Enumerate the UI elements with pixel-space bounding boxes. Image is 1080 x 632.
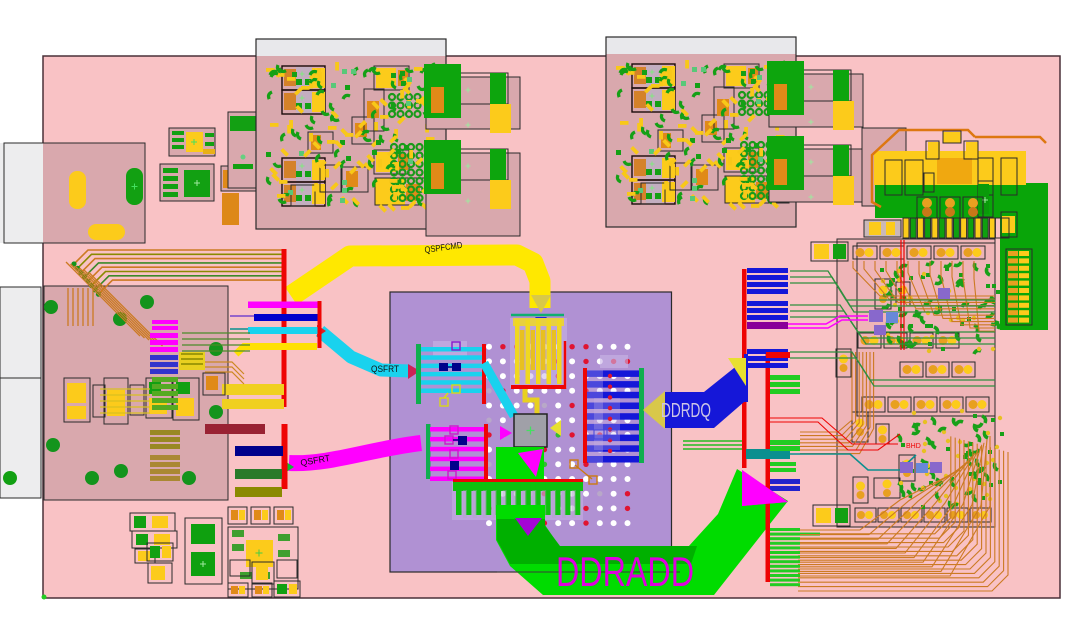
connector pad column CN5 — [1006, 249, 1032, 325]
connector module P4 — [767, 136, 863, 205]
node column N2 (red) — [282, 424, 288, 489]
orange circle pads row — [917, 197, 937, 218]
orange fanout traces (top) — [853, 261, 995, 331]
teal net trace — [790, 454, 916, 470]
BGA bottom pin comb — [452, 479, 583, 520]
J3 upper stub rows — [152, 320, 178, 330]
orange keepout outline — [872, 130, 975, 207]
J1 pad yellow — [88, 224, 125, 240]
red net traces — [770, 240, 921, 450]
connector J1 (left edge, top) — [0, 143, 145, 243]
connector module P3 — [767, 61, 863, 130]
svg-text:DDRDQ: DDRDQ — [661, 400, 711, 422]
DDRADD copper entry — [496, 447, 544, 480]
capacitor C1 — [222, 193, 239, 225]
outline boxes — [885, 160, 902, 195]
DDRADD arrow (magenta) — [742, 470, 788, 506]
BGA magenta receiver group — [426, 424, 488, 481]
BGA cyan receiver group — [416, 341, 486, 406]
QSFRT bus (magenta) — [283, 443, 421, 474]
component U5 — [228, 112, 261, 188]
J3 internal traces — [68, 288, 250, 413]
origin marker — [42, 595, 47, 600]
component U2 — [169, 128, 215, 156]
core chip X1 — [514, 389, 547, 447]
yellow power plane — [874, 151, 1026, 185]
svg-text:QSFRT: QSFRT — [371, 364, 399, 374]
copper squiggle texture B — [897, 409, 1004, 509]
DDRADD arrow overlay — [742, 470, 788, 506]
lavender components right — [900, 288, 950, 473]
DDR memory cluster U8 — [606, 37, 796, 227]
J3 component cluster — [64, 373, 225, 424]
orange fanout traces (bottom nest) — [798, 436, 1008, 591]
node column N4 (red) — [766, 352, 771, 582]
bottom components group — [130, 507, 300, 597]
pad row R1 (top) — [811, 242, 985, 261]
QSPFCMD entry arrow — [511, 295, 564, 324]
node column N2b (red) — [318, 301, 322, 348]
BGA region U9 — [390, 292, 672, 572]
BGA yellow pin field — [510, 318, 567, 389]
connector J2 (left edge, bottom shell) — [0, 287, 41, 498]
arrow into core (magenta) — [500, 426, 512, 440]
power regulator area VR1 — [864, 130, 1048, 330]
DDR memory cluster U7 — [256, 39, 446, 229]
BGA DDR driver group — [583, 355, 644, 463]
orange fanout traces (left nest) — [800, 352, 874, 454]
green exit traces BGA — [683, 441, 742, 449]
wire bundle diagonal into J3 — [66, 262, 163, 346]
left bus stubs — [205, 302, 318, 498]
connector module P1 — [424, 64, 520, 133]
component U6 — [257, 191, 303, 229]
J3 stub rows — [150, 333, 205, 481]
pad row R2 — [858, 333, 959, 348]
orange traces bottom right — [800, 436, 990, 576]
component shield box — [862, 128, 906, 206]
component U3 — [160, 164, 214, 201]
bus QSPFCMD — [291, 255, 540, 308]
svg-text:DDRADD: DDRADD — [556, 548, 694, 595]
connector module P2 — [424, 140, 520, 236]
discrete pads right region — [836, 279, 915, 503]
vertical pad comb — [864, 220, 901, 237]
pad row R4 — [862, 397, 989, 412]
bus DDRADD — [496, 469, 788, 595]
wire bundle from J3 to node column — [71, 250, 282, 297]
component U4 — [221, 166, 267, 191]
DDR stub group B (green/blue) — [746, 375, 820, 586]
DDR stub group A (blue) — [747, 268, 790, 368]
bus DDRDQ — [643, 354, 748, 429]
green net traces — [790, 271, 995, 386]
pad row R3 — [900, 362, 975, 377]
copper pour green — [875, 183, 1048, 330]
BGA ball grid — [486, 344, 631, 526]
QSFRT bus (cyan) — [317, 325, 420, 379]
J3 vias — [44, 295, 223, 485]
cyan diagonal to core — [484, 363, 514, 416]
copper squiggle texture A — [880, 261, 1000, 354]
orange jumper — [570, 460, 597, 484]
svg-text:BHD: BHD — [906, 443, 921, 450]
J1 pad green — [126, 168, 143, 205]
magenta diff pair — [788, 310, 898, 335]
pad row R5 (bottom) — [813, 505, 991, 526]
routing region outline — [837, 239, 995, 527]
connector region J3 body — [44, 286, 228, 500]
node column N3 (red) — [742, 269, 747, 468]
node column N1 (red) — [282, 249, 287, 407]
via arrow (violet) — [515, 518, 542, 536]
arrow out of core (yellow) — [550, 420, 561, 436]
